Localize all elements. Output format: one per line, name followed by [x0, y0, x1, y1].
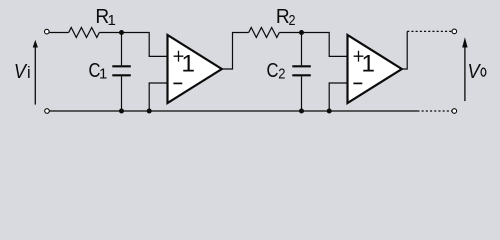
wire: R1 to op-amp U1 plus-input jog	[99, 33, 167, 57]
svg-text:i: i	[27, 64, 31, 82]
svg-text:2: 2	[289, 12, 296, 29]
svg-text:V: V	[14, 61, 28, 83]
svg-text:1: 1	[99, 66, 107, 83]
op-amp U1	[168, 35, 222, 103]
junction dot U2 minus rail	[327, 109, 332, 114]
wire: C2 top lead	[301, 33, 303, 66]
input terminal top	[45, 29, 50, 34]
wire: R2 to op-amp U2 plus-input jog	[279, 33, 347, 57]
wire: U1 minus-input from bottom rail	[149, 83, 167, 111]
svg-text:2: 2	[278, 65, 285, 82]
op-amp U1 minus sign	[173, 82, 182, 84]
svg-text:C: C	[267, 60, 279, 82]
resistor R2	[249, 28, 280, 38]
resistor R1	[69, 28, 100, 38]
op-amp U2 minus sign	[353, 82, 362, 84]
svg-text:1: 1	[108, 12, 116, 29]
wire: U2 minus-input from bottom rail	[329, 83, 347, 111]
op-amp U2 plus sign	[354, 51, 364, 62]
svg-text:1: 1	[361, 51, 375, 78]
wire: U2 output riser	[402, 31, 407, 69]
capacitor C2	[292, 66, 311, 75]
wire: U1 output to R2	[222, 33, 249, 70]
wire: bottom rail	[49, 110, 417, 112]
junction dot C1 bottom	[119, 109, 124, 114]
junction dot U1 minus rail	[147, 109, 152, 114]
input terminal bottom	[45, 109, 50, 114]
op-amp U1 plus sign	[174, 51, 184, 62]
wire: C1 top lead	[121, 33, 123, 66]
junction dot R2/C2 node	[299, 30, 304, 35]
op-amp U2	[348, 35, 402, 103]
wire: C2 bottom lead	[301, 76, 303, 111]
junction dot C2 bottom	[299, 109, 304, 114]
capacitor C1	[112, 66, 131, 75]
wire: input top lead	[49, 32, 68, 34]
svg-text:1: 1	[181, 51, 195, 78]
wire: bottom rail dashed end	[417, 110, 452, 112]
svg-text:V: V	[468, 61, 482, 83]
wire: output dashed lead to terminal	[407, 30, 452, 32]
wire: C1 bottom lead	[121, 76, 123, 111]
Vo arrow	[464, 45, 466, 102]
output terminal top	[452, 29, 457, 34]
Vi arrow	[34, 47, 36, 105]
junction dot R1/C1 node	[119, 30, 124, 35]
output terminal bottom	[452, 109, 457, 114]
